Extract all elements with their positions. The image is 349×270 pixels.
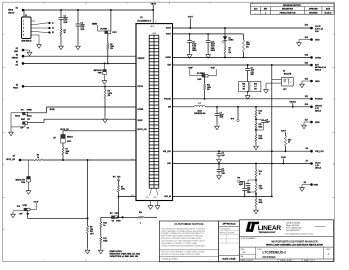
svg-text:1: 1	[140, 223, 141, 225]
svg-text:JP7: JP7	[53, 138, 56, 140]
svg-text:PBSTAT: PBSTAT	[138, 57, 146, 60]
svg-text:ON: ON	[27, 128, 29, 130]
svg-text:E2: E2	[16, 48, 18, 50]
svg-text:GEORGES: GEORGES	[227, 233, 234, 235]
svg-text:PCB DES.: PCB DES.	[220, 229, 227, 231]
svg-text:CUSTOMER NOTICE: CUSTOMER NOTICE	[174, 222, 203, 226]
svg-text:600k: 600k	[259, 202, 263, 204]
svg-text:VIN_LDO: VIN_LDO	[163, 151, 172, 153]
svg-text:E7: E7	[306, 161, 308, 163]
svg-text:PROG: PROG	[13, 88, 19, 90]
svg-text:IL: IL	[132, 158, 133, 160]
svg-text:MOC217M: MOC217M	[284, 74, 292, 76]
svg-text:E1: E1	[16, 8, 18, 10]
svg-text:MBCM ON: MBCM ON	[94, 70, 103, 72]
svg-text:Phone: (408)432-1900: Phone: (408)432-1900	[286, 228, 302, 230]
svg-text:JP1 PWR: JP1 PWR	[100, 29, 108, 31]
svg-text:VBUS: VBUS	[150, 26, 154, 28]
svg-text:VOUT: VOUT	[211, 67, 215, 69]
svg-text:VBUCK: VBUCK	[315, 106, 323, 108]
svg-text:3.3V 1.5A: 3.3V 1.5A	[315, 28, 324, 31]
svg-text:GND: GND	[315, 39, 320, 41]
svg-text:TITLE: SCHEMATIC: TITLE: SCHEMATIC	[241, 237, 257, 240]
svg-text:CHRG: CHRG	[116, 220, 121, 222]
svg-text:3: 3	[127, 260, 128, 262]
svg-text:X5R: X5R	[220, 117, 224, 119]
svg-text:E3: E3	[16, 54, 18, 56]
svg-text:USB MINI-B: USB MINI-B	[21, 40, 32, 42]
svg-text:VBUS: VBUS	[8, 10, 14, 12]
svg-text:X5R: X5R	[64, 22, 68, 24]
svg-text:OFF: OFF	[21, 128, 24, 130]
svg-text:REVISION HISTORY: REVISION HISTORY	[283, 5, 302, 7]
svg-text:100k: 100k	[121, 189, 125, 191]
svg-text:SUSP: SUSP	[197, 79, 201, 81]
svg-text:HPWR: HPWR	[138, 109, 144, 111]
svg-text:TP6: TP6	[237, 177, 240, 179]
svg-text:0603: 0603	[211, 50, 215, 52]
svg-text:500mA: 500mA	[315, 68, 322, 71]
svg-text:L1: L1	[199, 102, 201, 104]
svg-text:LDO: LDO	[167, 163, 171, 165]
svg-text:VOUT: VOUT	[315, 26, 321, 28]
svg-text:OPT: OPT	[283, 89, 286, 91]
svg-text:TP5: TP5	[113, 176, 116, 178]
svg-text:1%: 1%	[108, 95, 111, 97]
svg-text:2.2M: 2.2M	[259, 188, 263, 190]
svg-text:DC1589A: DC1589A	[263, 255, 277, 259]
svg-text:X5R: X5R	[81, 29, 85, 31]
svg-text:CAPACITORS: uF, SMD, 0402, 16V: CAPACITORS: uF, SMD, 0402, 16V	[110, 255, 139, 258]
svg-text:CHRG: CHRG	[315, 57, 321, 59]
svg-text:JP5: JP5	[17, 206, 20, 208]
svg-text:1k: 1k	[37, 157, 39, 159]
svg-text:JP4: JP4	[21, 109, 24, 111]
svg-text:VOUT: VOUT	[281, 131, 287, 133]
svg-text:VBUCK: VBUCK	[290, 101, 297, 103]
svg-text:CHRG: CHRG	[165, 57, 171, 59]
svg-text:TP4: TP4	[231, 119, 234, 121]
svg-text:E17: E17	[305, 120, 308, 122]
svg-text:10uH: 10uH	[197, 111, 202, 113]
svg-text:10uF: 10uF	[251, 70, 255, 72]
svg-text:1k: 1k	[259, 113, 261, 115]
svg-text:E6: E6	[13, 156, 15, 158]
svg-text:DESCRIPTION: DESCRIPTION	[282, 9, 294, 11]
svg-text:100mA: 100mA	[315, 166, 322, 169]
svg-text:GND: GND	[146, 197, 149, 199]
svg-text:PBSTAT: PBSTAT	[12, 56, 18, 59]
svg-text:VOUT: VOUT	[188, 17, 194, 19]
svg-text:J1: J1	[25, 15, 27, 17]
svg-text:R22: R22	[254, 84, 257, 86]
svg-text:MICROPOWER USB POWER MANAGER: MICROPOWER USB POWER MANAGER	[271, 240, 318, 243]
svg-text:604k: 604k	[259, 126, 263, 128]
svg-text:OFF: OFF	[19, 213, 22, 215]
svg-text:U2: U2	[283, 71, 285, 73]
svg-text:SCALE = NONE: SCALE = NONE	[222, 257, 236, 260]
svg-text:E9: E9	[306, 148, 308, 150]
svg-text:SIZE: SIZE	[241, 249, 244, 251]
svg-text:E10: E10	[305, 37, 308, 39]
svg-text:3: 3	[127, 3, 128, 5]
svg-text:C12: C12	[247, 187, 250, 189]
svg-text:GND: GND	[314, 184, 319, 186]
svg-text:1k: 1k	[64, 32, 66, 34]
svg-text:0603: 0603	[192, 50, 196, 52]
svg-text:JP6: JP6	[110, 213, 113, 215]
svg-text:PGOOD: PGOOD	[315, 99, 323, 101]
svg-text:GND: GND	[14, 51, 19, 53]
svg-text:E16: E16	[305, 104, 308, 106]
svg-text:E12: E12	[305, 63, 308, 65]
svg-text:SHEET 1 OF 1: SHEET 1 OF 1	[304, 260, 315, 262]
svg-text:1uF: 1uF	[247, 190, 250, 192]
svg-text:1k: 1k	[103, 225, 105, 227]
svg-text:HPWR: HPWR	[27, 109, 33, 111]
svg-text:SUSP: SUSP	[21, 119, 25, 121]
svg-text:C8: C8	[251, 68, 253, 70]
svg-text:SUSP: SUSP	[188, 67, 192, 69]
svg-text:SUSP: SUSP	[138, 120, 144, 122]
svg-text:E14: E14	[305, 24, 308, 26]
svg-text:MBUCK: MBUCK	[67, 137, 74, 139]
svg-text:E4: E4	[16, 62, 18, 64]
svg-text:E15: E15	[305, 79, 308, 81]
svg-text:VOUT: VOUT	[166, 34, 172, 36]
svg-text:CHRG: CHRG	[229, 40, 235, 42]
svg-text:R18: R18	[242, 84, 245, 86]
svg-text:TECHNOLOGY: TECHNOLOGY	[259, 232, 276, 234]
svg-text:LTC3559EUD-2: LTC3559EUD-2	[137, 21, 152, 23]
svg-text:WITH LI-ION CHARGER, LDO AND B: WITH LI-ION CHARGER, LDO AND BUCK REGULA…	[266, 244, 323, 247]
svg-text:GEORGES: GEORGES	[309, 12, 318, 14]
svg-text:VOUT: VOUT	[112, 32, 116, 34]
svg-text:ON: ON	[112, 220, 114, 222]
svg-text:PGOOD: PGOOD	[164, 99, 172, 101]
svg-text:GND: GND	[154, 197, 157, 199]
svg-text:CDRH2D18-100: CDRH2D18-100	[194, 113, 205, 115]
svg-text:VLDO: VLDO	[315, 162, 321, 164]
svg-text:STBY: STBY	[23, 205, 29, 207]
svg-text:SW: SW	[168, 107, 171, 109]
svg-text:E5: E5	[304, 182, 306, 184]
svg-text:VOUT: VOUT	[166, 28, 172, 30]
svg-text:VIN_LDO: VIN_LDO	[315, 151, 324, 153]
svg-text:APPROVALS: APPROVALS	[222, 223, 236, 226]
svg-text:LTC3559EUD-2: LTC3559EUD-2	[263, 251, 287, 255]
svg-text:05-16-13: 05-16-13	[325, 12, 332, 14]
svg-text:GND: GND	[315, 81, 320, 83]
svg-text:R24: R24	[139, 212, 142, 214]
svg-text:1.4: 1.4	[243, 86, 245, 88]
svg-text:4: 4	[44, 260, 45, 262]
svg-text:PRODUCTION FCM: PRODUCTION FCM	[280, 12, 296, 14]
svg-text:E13: E13	[305, 54, 308, 56]
svg-text:MBUCK OFF: MBUCK OFF	[16, 180, 25, 182]
svg-text:MODE: MODE	[50, 109, 55, 111]
svg-text:BUCK_ON: BUCK_ON	[6, 159, 15, 161]
svg-text:E5: E5	[16, 84, 18, 86]
svg-text:200mA: 200mA	[315, 110, 322, 113]
svg-text:2: 2	[210, 3, 211, 5]
svg-text:E11: E11	[305, 96, 308, 98]
svg-text:PROG: PROG	[138, 86, 144, 88]
svg-text:600k: 600k	[259, 138, 263, 140]
svg-text:USB 5V: USB 5V	[8, 12, 15, 14]
svg-text:1k: 1k	[259, 173, 261, 175]
svg-text:4: 4	[44, 3, 45, 5]
svg-text:VBUS: VBUS	[151, 3, 157, 5]
svg-text:MBRM: MBRM	[92, 23, 98, 25]
svg-text:Fax: (408)434-0507: Fax: (408)434-0507	[286, 230, 300, 232]
svg-text:LDO_IN: LDO_IN	[164, 196, 171, 198]
svg-text:LINEAR: LINEAR	[258, 225, 282, 232]
svg-text:JP3: JP3	[27, 119, 30, 121]
svg-text:1k: 1k	[288, 142, 290, 144]
svg-text:GND: GND	[315, 122, 320, 124]
svg-text:1.4: 1.4	[254, 86, 256, 88]
svg-text:600k: 600k	[103, 240, 107, 242]
svg-text:BUCK_ON: BUCK_ON	[138, 129, 148, 131]
svg-text:1: 1	[265, 12, 266, 14]
